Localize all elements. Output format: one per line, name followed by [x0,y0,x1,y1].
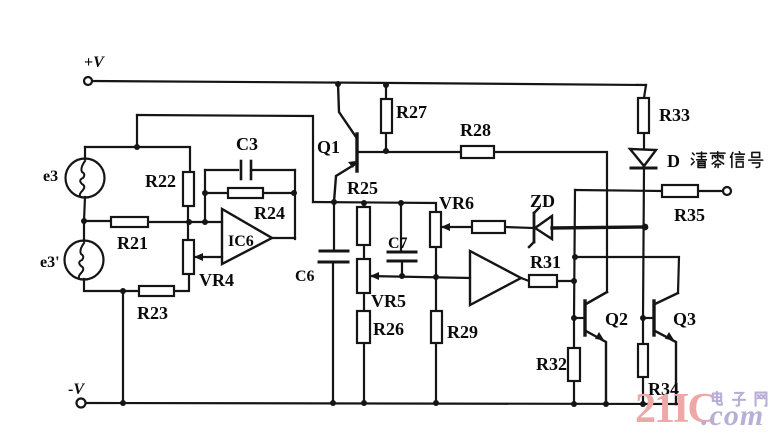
svg-text:R22: R22 [145,171,176,191]
svg-text:C7: C7 [388,235,408,252]
svg-text:R33: R33 [659,105,690,125]
svg-text:VR6: VR6 [439,193,474,213]
svg-text:Q2: Q2 [605,309,628,329]
svg-text:Q1: Q1 [317,137,340,157]
svg-text:e3': e3' [40,254,60,271]
svg-text:C6: C6 [295,268,315,285]
svg-text:Q3: Q3 [673,309,696,329]
svg-text:C3: C3 [236,134,258,154]
svg-text:R26: R26 [373,319,404,339]
svg-text:VR4: VR4 [199,270,234,290]
svg-text:-V: -V [68,381,85,398]
svg-text:R25: R25 [347,178,378,198]
svg-text:R32: R32 [536,354,567,374]
svg-text:D: D [667,151,680,171]
svg-text:R29: R29 [447,322,478,342]
svg-text:ZD: ZD [530,191,555,211]
svg-text:R35: R35 [674,205,705,225]
svg-text:.com: .com [701,399,764,432]
svg-text:VR5: VR5 [371,291,406,311]
svg-text:R27: R27 [396,102,427,122]
svg-text:R23: R23 [137,303,168,323]
svg-text:e3: e3 [43,168,58,185]
svg-text:R24: R24 [254,203,285,223]
svg-text:R31: R31 [530,252,561,272]
svg-text:R21: R21 [117,233,148,253]
svg-text:+V: +V [84,54,105,71]
svg-text:R28: R28 [460,120,491,140]
svg-text:IC6: IC6 [228,233,254,250]
